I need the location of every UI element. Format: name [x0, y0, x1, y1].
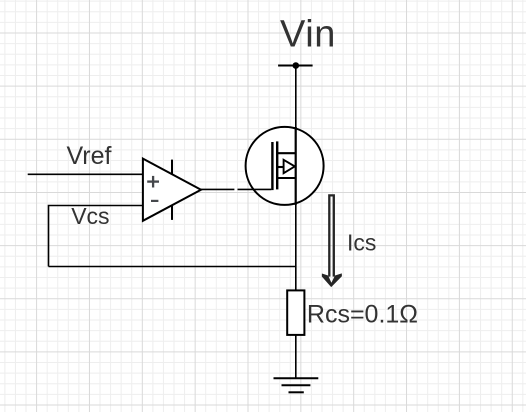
wire Vcs from op-amp inverting input	[49, 206, 143, 267]
label Vin (net name)	[280, 14, 336, 56]
label Rcs=0.1ohm value	[307, 301, 418, 329]
label Vcs	[71, 203, 109, 229]
op-amp U1	[143, 159, 201, 221]
current arrow Ics	[322, 195, 342, 287]
label Vref	[67, 142, 112, 170]
svg-text:Ics: Ics	[347, 229, 376, 255]
wire MOSFET source to Rcs	[295, 205, 297, 291]
wire Rcs to ground	[295, 335, 297, 378]
wire op-amp output	[201, 188, 234, 190]
svg-text:Rcs=0.1Ω: Rcs=0.1Ω	[307, 301, 418, 329]
svg-text:Vin: Vin	[280, 14, 336, 56]
resistor Rcs	[287, 290, 304, 335]
wire to MOSFET gate	[238, 188, 272, 190]
transistor Q1 N-channel MOSFET	[246, 127, 324, 205]
ground	[274, 378, 319, 392]
Vin terminal bar	[278, 65, 313, 67]
junction dot at Vin node	[293, 62, 300, 69]
label Ics	[347, 229, 376, 255]
wire Vin to MOSFET drain	[295, 66, 297, 154]
wire feedback bottom run to source node	[49, 266, 296, 268]
svg-text:Vref: Vref	[67, 142, 112, 170]
wire Vref to op-amp non-inverting input	[28, 173, 143, 175]
svg-text:Vcs: Vcs	[71, 203, 109, 229]
